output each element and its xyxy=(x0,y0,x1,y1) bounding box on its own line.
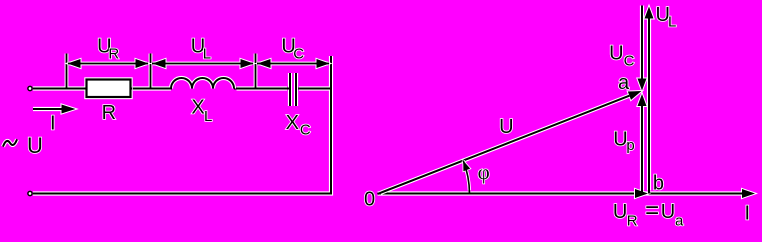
svg-text:R: R xyxy=(627,213,638,230)
svg-text:U: U xyxy=(613,201,627,223)
dimension tick middle (x=150) xyxy=(149,54,153,88)
phasor U vector xyxy=(378,91,642,194)
svg-text:L: L xyxy=(204,108,212,125)
phasor UR arrowhead at b xyxy=(635,189,648,198)
wire: top terminal to resistor xyxy=(33,86,87,90)
wire: inductor to capacitor xyxy=(234,86,289,90)
phasor axis I with arrow xyxy=(378,189,756,198)
svg-text:0: 0 xyxy=(364,189,375,211)
label UC xyxy=(281,36,304,63)
label UL xyxy=(191,36,211,63)
AC tilde symbol xyxy=(3,139,17,146)
svg-text:U: U xyxy=(661,201,675,223)
phasor Up segment (b to a, arrow up) xyxy=(638,94,647,194)
capacitor XC plates xyxy=(287,73,296,106)
svg-text:U: U xyxy=(27,133,43,158)
dimension tick left (x=66) xyxy=(65,54,69,88)
label UR xyxy=(97,36,119,63)
svg-text:a: a xyxy=(675,213,684,230)
current arrow I xyxy=(33,105,76,114)
source terminal top xyxy=(28,86,32,90)
svg-text:R: R xyxy=(108,46,119,63)
svg-text:U: U xyxy=(499,116,513,138)
dimension arrow UC xyxy=(257,59,330,68)
angle arc phi xyxy=(463,161,470,194)
label XC xyxy=(286,112,311,138)
svg-text:U: U xyxy=(609,42,623,64)
dimension arrow UR xyxy=(68,59,149,68)
inductor XL coil xyxy=(169,78,235,89)
wire: capacitor to right side, down and along the bottom return xyxy=(33,56,331,194)
svg-text:X: X xyxy=(191,97,204,119)
svg-text:I: I xyxy=(50,113,56,135)
label XL xyxy=(191,97,212,126)
label UL (phasor) xyxy=(656,4,677,31)
label UR = Ua xyxy=(613,197,684,230)
phasor UL line xyxy=(645,7,654,194)
source terminal bottom xyxy=(28,191,32,195)
wire: resistor to inductor xyxy=(131,86,172,90)
svg-text:φ: φ xyxy=(478,160,490,184)
svg-text:p: p xyxy=(626,137,634,154)
svg-text:R: R xyxy=(102,102,116,124)
svg-text:=: = xyxy=(645,197,659,224)
svg-text:a: a xyxy=(618,72,630,94)
svg-text:C: C xyxy=(300,121,311,138)
svg-text:I: I xyxy=(745,203,751,225)
dimension tick right (x=255) xyxy=(254,54,258,88)
label Up (phasor) xyxy=(613,129,634,154)
svg-text:b: b xyxy=(653,173,664,195)
svg-text:L: L xyxy=(668,14,676,31)
dimension arrow UL xyxy=(152,59,254,68)
label UC (phasor) xyxy=(609,42,635,69)
svg-text:L: L xyxy=(203,46,211,63)
svg-text:C: C xyxy=(624,53,635,70)
phasor UC segment (top to a, arrow down) xyxy=(638,6,647,91)
svg-text:C: C xyxy=(293,46,304,63)
svg-text:X: X xyxy=(286,112,299,134)
resistor R body xyxy=(83,80,132,98)
